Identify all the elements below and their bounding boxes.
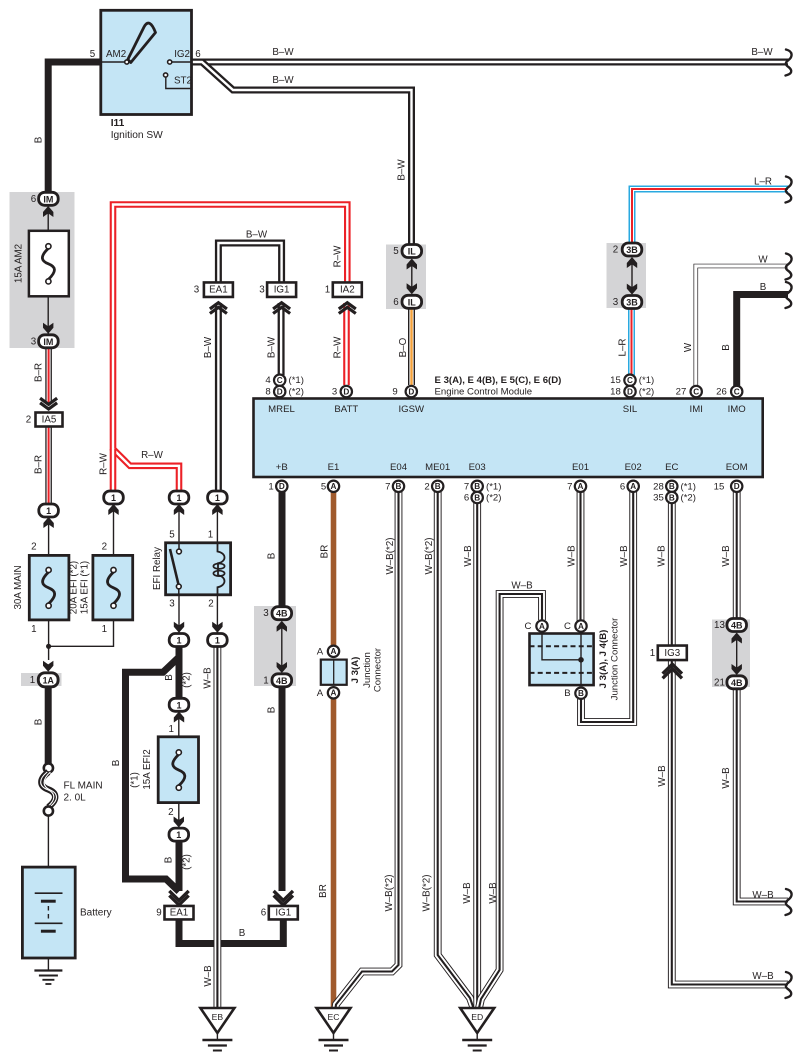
wire W-B from ECM EC through IG3 to right edge bbox=[672, 492, 788, 985]
svg-text:A: A bbox=[630, 482, 636, 491]
svg-text:E 3(A), E 4(B), E 5(C), E 6(D): E 3(A), E 4(B), E 5(C), E 6(D) bbox=[435, 375, 562, 386]
connector 1 above relay pin 1 bbox=[208, 491, 228, 504]
svg-text:1: 1 bbox=[30, 675, 35, 686]
fuse 15A AM2 bbox=[29, 231, 69, 296]
svg-text:Junction Connector: Junction Connector bbox=[610, 617, 621, 700]
wire B from ECM +B down to connector 3 4B bbox=[279, 492, 286, 608]
ignition switch I11 bbox=[101, 10, 192, 114]
ground below battery bbox=[34, 969, 62, 971]
connector 1 above 15A EFI2 bbox=[169, 698, 189, 711]
svg-text:5: 5 bbox=[393, 246, 399, 257]
svg-text:6: 6 bbox=[393, 297, 399, 308]
svg-text:(*1): (*1) bbox=[681, 481, 696, 492]
wire W-B from ECM E03 to ground ED bbox=[473, 503, 481, 1008]
ignition contact ST2 bbox=[164, 73, 168, 77]
connector 2 IA5 bbox=[40, 398, 57, 409]
connector 1 4B bbox=[272, 674, 292, 687]
svg-text:A: A bbox=[317, 688, 324, 699]
svg-text:6: 6 bbox=[261, 908, 267, 919]
connector 3 IM bbox=[43, 323, 53, 334]
svg-text:B: B bbox=[760, 282, 767, 293]
svg-text:B: B bbox=[578, 689, 584, 698]
svg-text:W–B: W–B bbox=[463, 545, 474, 567]
ground EC bbox=[317, 1008, 351, 1033]
svg-text:5: 5 bbox=[321, 481, 326, 492]
wire thin from connector 1 to 20A EFI fuse pin 2 bbox=[113, 504, 115, 556]
svg-text:30A MAIN: 30A MAIN bbox=[13, 565, 24, 609]
connector 6 IM bbox=[43, 206, 53, 217]
svg-text:35: 35 bbox=[653, 493, 664, 504]
svg-text:27: 27 bbox=[676, 387, 687, 398]
fusible link FL MAIN 2.0L bbox=[44, 763, 53, 772]
svg-text:A: A bbox=[317, 646, 324, 657]
svg-text:1: 1 bbox=[31, 624, 36, 635]
svg-text:W–B: W–B bbox=[752, 890, 774, 901]
svg-text:3: 3 bbox=[194, 285, 200, 296]
svg-text:IL: IL bbox=[408, 247, 417, 257]
continuation W-B right edge upper bbox=[786, 889, 792, 915]
svg-text:C: C bbox=[277, 376, 283, 385]
svg-text:1: 1 bbox=[215, 493, 220, 503]
svg-text:(*1): (*1) bbox=[130, 772, 141, 788]
wire W-B from ECM E02 to junction connector B(B) bbox=[581, 492, 633, 722]
wire B (*1) branch bypassing EFI2 fuse bbox=[126, 658, 180, 892]
svg-text:BR: BR bbox=[320, 545, 331, 559]
svg-text:15: 15 bbox=[714, 481, 725, 492]
svg-text:+B: +B bbox=[276, 462, 288, 473]
svg-text:Engine Control Module: Engine Control Module bbox=[435, 386, 533, 397]
svg-text:IM: IM bbox=[43, 194, 53, 204]
wire R-W from IA2 connector to ECM BATT bbox=[343, 303, 350, 385]
svg-text:W: W bbox=[758, 255, 768, 266]
connector 1 below 15A EFI2 bbox=[174, 817, 184, 828]
svg-text:W–B: W–B bbox=[203, 965, 214, 987]
svg-text:15A EFI2: 15A EFI2 bbox=[142, 749, 153, 789]
ECM pin SIL 15C 18D bbox=[624, 375, 635, 386]
svg-text:1: 1 bbox=[111, 493, 116, 503]
wire B from right edge to ECM IMO bbox=[737, 295, 788, 387]
svg-text:W–B: W–B bbox=[657, 765, 668, 787]
svg-text:2: 2 bbox=[208, 599, 213, 610]
wire BR from ECM E1 to junction connector J3 bbox=[331, 492, 337, 645]
svg-text:W–B: W–B bbox=[203, 667, 214, 689]
ground EB bbox=[200, 1008, 234, 1033]
svg-text:C: C bbox=[734, 387, 740, 396]
svg-text:8: 8 bbox=[265, 387, 270, 398]
svg-text:IG2: IG2 bbox=[174, 49, 190, 60]
svg-text:EA1: EA1 bbox=[209, 285, 228, 296]
wire thin battery internals and to ground bbox=[47, 930, 49, 970]
continuation B-W right edge bbox=[786, 50, 792, 76]
svg-text:3: 3 bbox=[259, 285, 265, 296]
svg-text:A: A bbox=[331, 482, 337, 491]
svg-text:(*1): (*1) bbox=[486, 481, 501, 492]
gray panel behind 4B connectors (+B chain) bbox=[254, 606, 296, 686]
wire B-W branch from IG2 down to IL connector bbox=[194, 62, 412, 246]
svg-text:Battery: Battery bbox=[80, 908, 112, 919]
wire B from relay connector down to 15A EFI2 connector bbox=[176, 646, 183, 699]
connector 1 below relay pin 3 bbox=[174, 622, 184, 633]
svg-text:EC: EC bbox=[665, 462, 678, 473]
svg-text:6: 6 bbox=[620, 481, 625, 492]
svg-text:L–R: L–R bbox=[618, 339, 629, 357]
wire thin from connector 1 to EFI relay pin 5 bbox=[178, 504, 180, 543]
svg-text:1: 1 bbox=[263, 675, 268, 686]
connector 21 4B bbox=[727, 676, 747, 689]
svg-text:W–B: W–B bbox=[511, 581, 533, 592]
svg-text:9: 9 bbox=[156, 908, 161, 919]
connector 1 below relay pin 2 bbox=[212, 622, 222, 633]
svg-text:ED: ED bbox=[471, 1012, 483, 1022]
svg-text:W–B: W–B bbox=[752, 971, 774, 982]
svg-text:IA5: IA5 bbox=[42, 415, 57, 426]
connector 9 EA1 bbox=[169, 891, 188, 905]
connector 1 below IA5 bbox=[39, 504, 59, 517]
wire L-R from 3B connector to ECM SIL bbox=[628, 308, 635, 376]
battery bbox=[22, 867, 75, 958]
svg-text:(*1): (*1) bbox=[639, 375, 654, 386]
connector 3 4B bbox=[272, 607, 292, 620]
ignition switch lever bbox=[128, 23, 156, 62]
svg-text:EOM: EOM bbox=[726, 462, 748, 473]
svg-text:IGSW: IGSW bbox=[399, 404, 426, 415]
svg-text:(*1): (*1) bbox=[289, 375, 304, 386]
svg-text:A: A bbox=[331, 647, 337, 656]
wire W-B(*2) from ECM ME01 to ground ED bbox=[438, 492, 474, 1008]
svg-text:(*2): (*2) bbox=[289, 387, 304, 398]
svg-text:B: B bbox=[474, 493, 480, 502]
svg-text:W–B(*2): W–B(*2) bbox=[422, 874, 433, 911]
wire R-W loop from IA2 connector to EFI relay feed bbox=[113, 205, 347, 493]
wire thin through 15A AM2 fuse bbox=[47, 205, 49, 334]
svg-text:1: 1 bbox=[208, 530, 213, 541]
svg-text:E1: E1 bbox=[328, 462, 340, 473]
svg-text:IL: IL bbox=[408, 297, 417, 307]
svg-text:4B: 4B bbox=[731, 678, 743, 688]
wire B-R from IA5 to connector 1 bbox=[45, 427, 52, 505]
svg-text:4B: 4B bbox=[276, 609, 288, 619]
svg-text:R–W: R–W bbox=[141, 450, 164, 461]
arrow between IL connectors bbox=[411, 263, 413, 291]
svg-text:W–B: W–B bbox=[567, 545, 578, 567]
svg-text:(*2): (*2) bbox=[681, 493, 696, 504]
svg-text:1: 1 bbox=[650, 648, 655, 659]
svg-text:A: A bbox=[578, 482, 584, 491]
svg-text:21: 21 bbox=[714, 677, 725, 688]
junction connector J3(A) J4(B) bbox=[536, 620, 547, 631]
svg-text:B–R: B–R bbox=[34, 455, 45, 474]
svg-text:W–B(*2): W–B(*2) bbox=[424, 537, 435, 574]
svg-text:1: 1 bbox=[46, 506, 51, 516]
ignition contact IG2 bbox=[168, 60, 172, 64]
continuation L-R right edge bbox=[786, 177, 792, 203]
connector 1 1A bbox=[43, 661, 53, 672]
connector 2 3B bbox=[622, 243, 642, 256]
svg-text:15A EFI (*1): 15A EFI (*1) bbox=[80, 561, 91, 614]
wire B-W from IG1 connector down to ECM MREL bbox=[278, 303, 285, 375]
svg-text:AM2: AM2 bbox=[106, 49, 126, 60]
wire B-W from IG2 to right edge bbox=[192, 59, 789, 66]
ECM pin MREL 4C 8D bbox=[274, 375, 285, 386]
svg-text:4B: 4B bbox=[276, 676, 288, 686]
ignition switch ST2 stub bbox=[166, 77, 192, 89]
svg-text:(*2): (*2) bbox=[182, 672, 193, 688]
svg-text:B: B bbox=[669, 493, 675, 502]
ignition contact AM2 bbox=[125, 60, 129, 64]
gray panel behind 1A connector bbox=[21, 673, 62, 686]
svg-text:4B: 4B bbox=[731, 621, 743, 631]
svg-text:BATT: BATT bbox=[334, 404, 358, 415]
connector 1 above relay pin 5 bbox=[169, 491, 189, 504]
connector 3 IG1 bbox=[267, 282, 296, 297]
svg-text:B–W: B–W bbox=[246, 230, 268, 241]
svg-text:E02: E02 bbox=[625, 462, 642, 473]
svg-text:ST2: ST2 bbox=[174, 76, 192, 87]
wire thin relay pin2 down to connector 1 bbox=[216, 595, 218, 634]
svg-text:3: 3 bbox=[31, 336, 37, 347]
svg-text:IMI: IMI bbox=[690, 404, 703, 415]
svg-text:7: 7 bbox=[567, 481, 572, 492]
connector 6 IG1 bbox=[274, 891, 293, 905]
connector 13 4B bbox=[727, 619, 747, 632]
svg-text:IG1: IG1 bbox=[274, 285, 290, 296]
wire thin from connector 1 to EFI relay pin 1 bbox=[216, 504, 218, 543]
svg-text:W–B: W–B bbox=[488, 882, 499, 904]
svg-text:2. 0L: 2. 0L bbox=[64, 793, 87, 804]
wire L-R from right edge to 3B connector bbox=[632, 189, 788, 244]
svg-text:7: 7 bbox=[464, 481, 469, 492]
relay coil bbox=[218, 543, 225, 595]
ground ED bbox=[460, 1008, 494, 1033]
svg-text:5: 5 bbox=[90, 49, 96, 60]
arrow between 4B connectors +B bbox=[281, 625, 283, 669]
svg-text:C: C bbox=[564, 621, 571, 632]
svg-text:A: A bbox=[578, 622, 584, 631]
svg-text:1: 1 bbox=[168, 724, 173, 735]
wire B-W from EA1 connector down to EFI relay connector 1 bbox=[215, 303, 222, 491]
svg-text:B: B bbox=[164, 674, 175, 681]
svg-text:B–W: B–W bbox=[272, 47, 294, 58]
wire B-R from connector IM to IA2 junction IA5 bbox=[45, 348, 52, 404]
svg-text:R–W: R–W bbox=[99, 452, 110, 475]
svg-text:R–W: R–W bbox=[333, 336, 344, 359]
svg-text:6: 6 bbox=[195, 49, 201, 60]
svg-text:2: 2 bbox=[613, 245, 618, 256]
wire B-W from EA1 to IG1 bridge bbox=[218, 243, 281, 284]
svg-text:IG1: IG1 bbox=[275, 908, 291, 919]
svg-text:1: 1 bbox=[176, 700, 181, 710]
gray panel behind 4B connectors (EOM chain) bbox=[712, 620, 750, 688]
svg-text:B–W: B–W bbox=[397, 159, 408, 181]
gray panel behind 15A AM2 fuse block bbox=[10, 192, 75, 348]
svg-text:Connector: Connector bbox=[373, 647, 384, 692]
svg-text:B–W: B–W bbox=[751, 47, 773, 58]
svg-text:(*2): (*2) bbox=[486, 493, 501, 504]
wire thin from connector 1 to 15A EFI2 fuse bbox=[178, 710, 180, 737]
svg-text:C: C bbox=[693, 387, 699, 396]
svg-text:B: B bbox=[435, 482, 441, 491]
wire W-B from ECM EOM to connector 13 4B bbox=[733, 492, 741, 619]
svg-text:1: 1 bbox=[176, 493, 181, 503]
wire B from EFI2 connector to connector EA1 bbox=[176, 841, 183, 891]
svg-text:B: B bbox=[164, 856, 175, 863]
svg-text:B–R: B–R bbox=[34, 363, 45, 382]
svg-text:D: D bbox=[408, 387, 414, 396]
svg-text:W–B: W–B bbox=[462, 882, 473, 904]
connector 6 IL bbox=[402, 295, 422, 308]
junction connector J3(A) bbox=[328, 646, 339, 657]
connector 3 3B bbox=[622, 296, 642, 309]
svg-text:D: D bbox=[627, 387, 633, 396]
svg-text:I11: I11 bbox=[111, 118, 125, 129]
svg-text:6: 6 bbox=[464, 493, 469, 504]
svg-text:B: B bbox=[34, 718, 45, 725]
svg-text:(*2): (*2) bbox=[182, 854, 193, 870]
svg-text:EFI Relay: EFI Relay bbox=[152, 547, 163, 590]
svg-text:IA2: IA2 bbox=[340, 285, 355, 296]
svg-text:W–B: W–B bbox=[721, 545, 732, 567]
wire W-B(*2) from ECM E04 to ground EC bbox=[336, 492, 399, 1008]
svg-text:MREL: MREL bbox=[268, 404, 295, 415]
continuation W-B right edge lower bbox=[786, 972, 792, 998]
junction dot below 30A MAIN fuse bbox=[46, 644, 51, 649]
svg-text:D: D bbox=[734, 482, 740, 491]
svg-text:13: 13 bbox=[714, 620, 725, 631]
svg-text:EC: EC bbox=[328, 1012, 340, 1022]
svg-text:A: A bbox=[539, 622, 545, 631]
connector 3 EA1 bbox=[204, 282, 233, 297]
wire thin from FL MAIN to battery bbox=[47, 814, 49, 894]
svg-text:W–B: W–B bbox=[619, 545, 630, 567]
svg-text:C: C bbox=[525, 621, 532, 632]
wire BR from junction connector J3 to ground EC bbox=[331, 699, 337, 1008]
wire thin relay pin3 down to connector 1 bbox=[178, 595, 180, 634]
connector 1 IA2 bbox=[333, 282, 362, 297]
svg-text:W–B(*2): W–B(*2) bbox=[385, 537, 396, 574]
wire W-B from ECM E01 to junction connector C(A) bbox=[577, 492, 585, 621]
ECM pin IMO 26C bbox=[731, 386, 742, 397]
svg-text:15A AM2: 15A AM2 bbox=[14, 244, 25, 283]
wire B from ignition switch AM2 to connector IM bbox=[48, 62, 100, 193]
svg-text:3: 3 bbox=[169, 599, 175, 610]
svg-text:3B: 3B bbox=[626, 298, 638, 308]
svg-text:2: 2 bbox=[31, 542, 36, 553]
svg-text:D: D bbox=[279, 482, 285, 491]
svg-text:2: 2 bbox=[168, 807, 173, 818]
svg-text:1: 1 bbox=[215, 636, 220, 646]
svg-text:3: 3 bbox=[613, 297, 619, 308]
wire thin from connector 1 to 30A MAIN fuse bbox=[48, 511, 50, 556]
svg-text:SIL: SIL bbox=[623, 404, 638, 415]
svg-text:1: 1 bbox=[268, 481, 273, 492]
wire W-B bracket from junction connector C(A) to ground ED bbox=[479, 594, 542, 1008]
svg-text:IM: IM bbox=[43, 337, 53, 347]
svg-text:EB: EB bbox=[212, 1012, 224, 1022]
svg-text:IG3: IG3 bbox=[664, 648, 680, 659]
svg-text:ME01: ME01 bbox=[425, 462, 450, 473]
arrow between 4B connectors EOM bbox=[736, 637, 738, 672]
svg-text:W–B(*2): W–B(*2) bbox=[384, 874, 395, 911]
ECM pin BATT 3D bbox=[341, 386, 352, 397]
svg-text:18: 18 bbox=[610, 387, 621, 398]
svg-text:2: 2 bbox=[102, 542, 107, 553]
svg-text:B–O: B–O bbox=[398, 337, 409, 357]
svg-text:A: A bbox=[331, 689, 337, 698]
svg-text:15: 15 bbox=[610, 375, 621, 386]
svg-text:D: D bbox=[277, 387, 283, 396]
svg-text:2: 2 bbox=[26, 415, 31, 426]
svg-text:3: 3 bbox=[332, 387, 337, 398]
svg-text:J 3(A), J 4(B): J 3(A), J 4(B) bbox=[598, 630, 609, 689]
svg-text:B: B bbox=[34, 136, 45, 143]
svg-text:1A: 1A bbox=[43, 675, 55, 685]
svg-text:B–W: B–W bbox=[272, 75, 294, 86]
svg-text:1: 1 bbox=[102, 624, 107, 635]
wire W-B from relay connector to ground EB bbox=[213, 646, 221, 1008]
svg-text:R–W: R–W bbox=[333, 245, 344, 268]
svg-text:B: B bbox=[239, 928, 246, 939]
svg-text:6: 6 bbox=[31, 194, 37, 205]
engine control module ECM bbox=[254, 399, 763, 478]
connector 1 IG3 bbox=[658, 646, 687, 661]
svg-text:4: 4 bbox=[265, 375, 271, 386]
svg-text:3B: 3B bbox=[626, 245, 638, 255]
svg-text:1: 1 bbox=[325, 285, 330, 296]
wire W from right edge to ECM IMI bbox=[696, 266, 788, 386]
svg-text:2: 2 bbox=[424, 481, 429, 492]
wire B from connector 1A to FL MAIN bbox=[45, 687, 52, 764]
svg-text:9: 9 bbox=[392, 387, 397, 398]
wire thin junction below MAIN/EFI fuses bbox=[49, 620, 114, 660]
connector 1 above 20A EFI fuse bbox=[104, 491, 124, 504]
svg-text:BR: BR bbox=[318, 884, 329, 898]
continuation W right edge bbox=[786, 254, 792, 280]
svg-text:B: B bbox=[396, 482, 402, 491]
svg-text:W–B: W–B bbox=[657, 545, 668, 567]
gray panel behind 3B connectors bbox=[607, 243, 647, 308]
svg-text:IMO: IMO bbox=[728, 404, 746, 415]
wire R-W continuing down to connector 1 of 20A EFI fuse bbox=[110, 449, 117, 492]
svg-text:B: B bbox=[669, 482, 675, 491]
svg-text:L–R: L–R bbox=[754, 177, 772, 188]
svg-text:1: 1 bbox=[176, 636, 181, 646]
svg-text:(*2): (*2) bbox=[639, 387, 654, 398]
svg-text:Ignition SW: Ignition SW bbox=[111, 130, 163, 141]
svg-text:J 3(A): J 3(A) bbox=[350, 657, 361, 684]
svg-text:W: W bbox=[683, 342, 694, 352]
svg-text:26: 26 bbox=[716, 387, 727, 398]
svg-text:E01: E01 bbox=[572, 462, 589, 473]
ECM pin IMI 27C bbox=[691, 386, 702, 397]
arrow between 3B connectors bbox=[631, 261, 633, 291]
svg-text:E03: E03 bbox=[469, 462, 486, 473]
wire B from EA1 to IG1 ground-side loop bbox=[179, 918, 283, 944]
svg-text:C: C bbox=[627, 376, 633, 385]
svg-text:W–B: W–B bbox=[721, 767, 732, 789]
wire B-O from IL connector to ECM IGSW bbox=[408, 307, 415, 385]
connector 5 IL bbox=[402, 245, 422, 258]
svg-text:B–W: B–W bbox=[203, 336, 214, 358]
svg-text:B: B bbox=[564, 688, 570, 699]
svg-text:E04: E04 bbox=[390, 462, 408, 473]
svg-text:B: B bbox=[721, 344, 732, 351]
svg-text:FL MAIN: FL MAIN bbox=[64, 781, 103, 792]
ECM pin IGSW 9D bbox=[406, 386, 417, 397]
svg-text:7: 7 bbox=[385, 481, 390, 492]
svg-text:B: B bbox=[474, 482, 480, 491]
svg-text:3: 3 bbox=[263, 608, 269, 619]
svg-text:B: B bbox=[267, 706, 278, 713]
